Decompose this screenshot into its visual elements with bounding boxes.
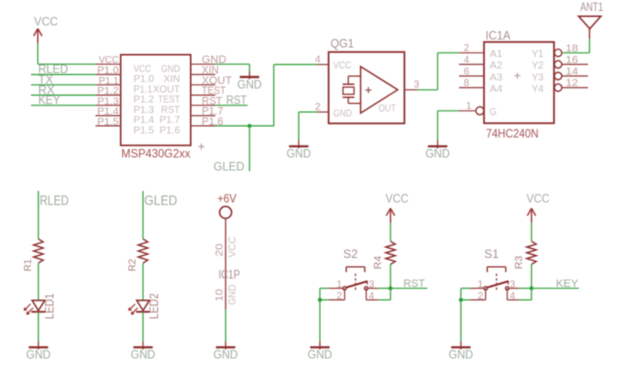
svg-text:Y1: Y1	[532, 48, 544, 60]
svg-text:6: 6	[464, 65, 470, 77]
svg-text:+6V: +6V	[217, 191, 236, 205]
svg-text:74HC240N: 74HC240N	[486, 127, 539, 141]
svg-text:GND: GND	[286, 149, 311, 161]
svg-text:GND: GND	[308, 350, 333, 362]
svg-text:1: 1	[466, 100, 472, 112]
svg-text:GND: GND	[333, 107, 352, 119]
svg-text:OUT: OUT	[379, 103, 397, 115]
svg-text:P1.5: P1.5	[134, 125, 155, 137]
svg-text:4: 4	[510, 290, 516, 302]
svg-text:S1: S1	[484, 249, 499, 261]
svg-text:P1.6: P1.6	[160, 125, 181, 137]
svg-text:R4: R4	[373, 255, 384, 269]
svg-text:S2: S2	[343, 249, 358, 261]
svg-text:VCC: VCC	[527, 193, 550, 205]
svg-text:R1: R1	[22, 259, 34, 272]
svg-text:Y2: Y2	[532, 60, 544, 72]
svg-text:Y4: Y4	[532, 83, 544, 95]
svg-text:16: 16	[566, 54, 579, 66]
svg-text:2: 2	[478, 290, 484, 302]
svg-text:GND: GND	[449, 350, 474, 362]
svg-text:IC1P: IC1P	[219, 270, 241, 282]
svg-text:10: 10	[214, 289, 226, 302]
svg-text:4: 4	[369, 290, 375, 302]
svg-text:3: 3	[369, 278, 375, 290]
svg-text:LED1: LED1	[45, 293, 57, 319]
svg-text:3: 3	[414, 79, 420, 91]
svg-text:A4: A4	[490, 83, 503, 95]
svg-text:18: 18	[566, 42, 579, 54]
svg-text:Y3: Y3	[532, 71, 544, 83]
svg-text:VCC: VCC	[227, 236, 239, 257]
svg-text:VCC: VCC	[386, 193, 409, 205]
svg-text:KEY: KEY	[38, 95, 60, 107]
svg-text:G: G	[490, 106, 497, 118]
svg-text:GLED: GLED	[214, 159, 245, 173]
svg-text:A3: A3	[490, 71, 503, 83]
svg-text:GLED: GLED	[144, 193, 177, 208]
svg-text:14: 14	[566, 66, 579, 78]
svg-text:2: 2	[464, 42, 470, 54]
svg-text:A1: A1	[490, 48, 503, 60]
svg-text:RST: RST	[403, 278, 425, 290]
svg-text:3: 3	[510, 278, 516, 290]
svg-text:GND: GND	[131, 350, 156, 362]
svg-text:2: 2	[315, 101, 321, 113]
svg-text:GND: GND	[26, 350, 51, 362]
svg-text:4: 4	[315, 53, 321, 65]
svg-text:MSP430G2xx: MSP430G2xx	[121, 147, 190, 161]
svg-text:GND: GND	[213, 350, 238, 362]
svg-text:A2: A2	[490, 60, 503, 72]
svg-text:GND: GND	[425, 149, 450, 161]
svg-text:KEY: KEY	[556, 278, 579, 290]
svg-text:8: 8	[464, 77, 470, 89]
svg-text:1: 1	[478, 278, 484, 290]
svg-text:IC1A: IC1A	[486, 31, 511, 43]
svg-text:R3: R3	[514, 255, 525, 269]
svg-text:12: 12	[566, 77, 579, 89]
svg-text:GND: GND	[237, 79, 262, 91]
svg-text:4: 4	[464, 54, 470, 66]
svg-text:20: 20	[214, 243, 226, 256]
svg-text:2: 2	[337, 290, 343, 302]
svg-text:LED2: LED2	[149, 293, 161, 319]
svg-text:1: 1	[337, 278, 343, 290]
svg-text:VCC: VCC	[333, 60, 351, 72]
svg-text:GND: GND	[227, 284, 239, 305]
svg-text:RST: RST	[226, 95, 247, 107]
svg-text:RLED: RLED	[40, 193, 69, 208]
svg-text:VCC: VCC	[34, 17, 58, 29]
svg-text:ANT1: ANT1	[580, 2, 603, 14]
svg-text:QG1: QG1	[331, 39, 355, 51]
svg-text:R2: R2	[127, 259, 139, 272]
svg-text:P1.5: P1.5	[97, 116, 119, 128]
